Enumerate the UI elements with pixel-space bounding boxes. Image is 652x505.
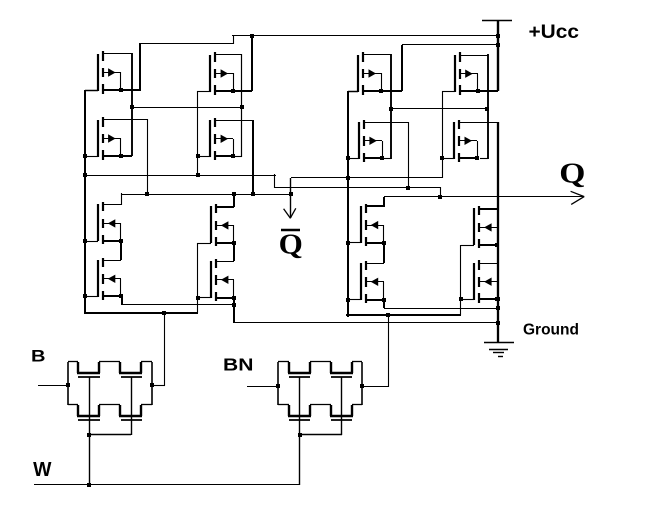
svg-text:B: B (31, 346, 45, 365)
svg-text:Ground: Ground (523, 322, 579, 339)
svg-text:Q: Q (559, 157, 585, 189)
svg-text:BN: BN (223, 355, 253, 375)
svg-text:Q: Q (279, 230, 303, 260)
svg-text:W: W (33, 459, 52, 481)
svg-text:+Ucc: +Ucc (529, 21, 579, 42)
